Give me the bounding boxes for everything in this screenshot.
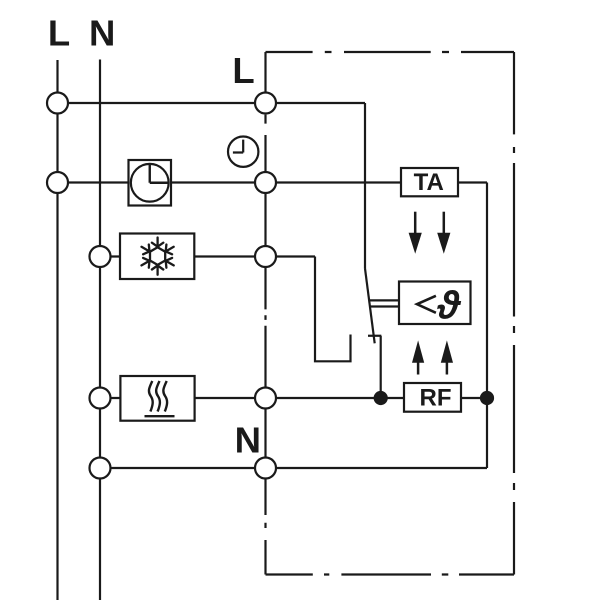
svg-text:L: L: [232, 50, 254, 91]
TA box (outside temperature sensor): [401, 168, 458, 196]
terminal on L line row 1: [47, 93, 68, 114]
wire row 1: L to switch common: [58, 102, 366, 104]
wire L supply line: [56, 60, 58, 600]
wire row 3: N through cooling contactor: [100, 255, 315, 257]
arrow up 2 (RF to thermostat): [441, 340, 453, 374]
terminal on N line row 4: [90, 388, 111, 409]
svg-text:RF: RF: [420, 385, 452, 412]
wire switch common vertical: [364, 103, 366, 269]
terminal on N line row 5: [90, 458, 111, 479]
terminal on N line row 3: [90, 246, 111, 267]
device terminal L: [255, 93, 276, 114]
RF box (room temperature sensor): [404, 383, 461, 412]
svg-text:N: N: [235, 420, 261, 461]
thermostat box U1 (<theta): [399, 282, 471, 328]
wire row 4: N through heating contactor to RF: [100, 397, 404, 399]
device terminal timer: [255, 172, 276, 193]
arrow down 2 (TA to thermostat): [437, 212, 450, 254]
junction dot RF/N: [480, 391, 494, 405]
svg-text:L: L: [48, 13, 70, 54]
junction dot heating/RF: [374, 391, 388, 405]
enclosure boundary right (dash-dot): [513, 52, 515, 575]
wire row 2: L through timer to TA: [58, 181, 402, 183]
wire RF right to junction: [461, 397, 487, 399]
mechanical linkage (double line) to thermostat: [369, 300, 398, 306]
device terminal N: [255, 458, 276, 479]
svg-text:ϑ: ϑ: [436, 284, 461, 327]
device terminal heating: [255, 388, 276, 409]
terminal on L line row 2: [47, 172, 68, 193]
switch fixed contact tick: [368, 335, 381, 337]
enclosure boundary left (dash-dot): [264, 52, 266, 575]
wire row 5: N return: [100, 467, 487, 469]
arrow up 1 (RF to thermostat): [412, 340, 424, 374]
cooling contactor box K1 (snowflake): [120, 234, 194, 280]
wire N supply line: [99, 60, 101, 600]
wire cooling throw hook: [315, 257, 351, 362]
svg-text:N: N: [89, 13, 115, 54]
wire TA output to RF junction: [458, 183, 487, 469]
wire heating throw vertical: [380, 336, 382, 398]
arrow down 1 (TA to thermostat): [409, 212, 422, 254]
enclosure boundary bottom (dash-dot): [266, 573, 515, 575]
heating contactor box K2 (underfloor heating symbol): [120, 376, 194, 421]
clock symbol (timer program): [228, 137, 258, 167]
enclosure boundary top (dash-dot): [266, 51, 515, 53]
device terminal cooling: [255, 246, 276, 267]
svg-text:TA: TA: [414, 169, 444, 196]
switch blade S1: [365, 269, 375, 344]
timer box (time switch): [129, 160, 172, 206]
